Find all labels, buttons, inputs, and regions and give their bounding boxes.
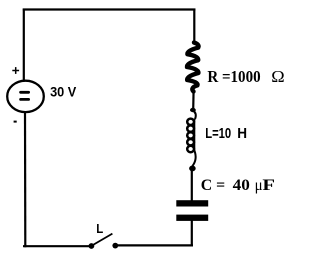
wire left upper (23, 9, 25, 81)
plus polarity mark (12, 67, 19, 74)
wire inductor to capacitor (191, 168, 193, 201)
switch S1 right contact dot (112, 243, 118, 249)
inductor L1 bottom lead curve (192, 151, 195, 167)
svg-text:R =1000: R =1000 (207, 67, 260, 86)
svg-text:30 V: 30 V (50, 84, 77, 100)
svg-text:F: F (262, 177, 275, 194)
wire capacitor to bottom (191, 221, 193, 247)
inductor L1 top lead curve (193, 111, 196, 120)
inductor L1 coil loops (187, 119, 194, 153)
capacitor C1 top plate (176, 200, 208, 206)
inductor L1 top junction dot (190, 108, 196, 112)
resistor R1 zigzag (187, 43, 199, 92)
voltage source V1 bars (21, 92, 29, 99)
svg-text:L=10: L=10 (205, 126, 231, 142)
switch S1 left contact dot (89, 243, 95, 249)
wire top (23, 8, 196, 10)
svg-text:μ: μ (255, 177, 263, 194)
wire left lower (24, 112, 26, 248)
wire top right to resistor (193, 9, 195, 44)
wire resistor to inductor (192, 90, 195, 110)
svg-text:40: 40 (233, 177, 250, 194)
voltage source V1 circle (7, 81, 44, 112)
svg-text:C =: C = (201, 177, 225, 194)
svg-text:H: H (237, 126, 247, 142)
svg-text:Ω: Ω (271, 67, 284, 86)
switch S1 blade (92, 234, 113, 246)
inductor L1 bottom junction dot (189, 166, 196, 172)
svg-text:L: L (96, 221, 103, 236)
minus polarity mark (14, 121, 17, 123)
wire bottom left (23, 245, 89, 247)
wire bottom right (118, 244, 194, 246)
capacitor C1 bottom plate (176, 215, 208, 221)
